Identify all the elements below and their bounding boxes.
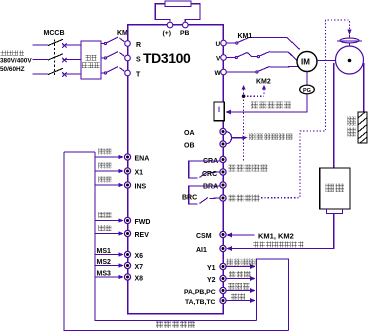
- svg-text:TA,TB,TC: TA,TB,TC: [185, 299, 216, 306]
- terminal R: [125, 41, 131, 47]
- dashed contactor control link: [244, 88, 264, 162]
- inverter block TD3100: [128, 25, 224, 314]
- terminal X7: [124, 262, 130, 268]
- label 称重信号模拟输入: [253, 242, 259, 248]
- terminal X6: [124, 251, 130, 257]
- svg-text:Y1: Y1: [207, 265, 216, 272]
- counterweight: [358, 112, 367, 143]
- elevator controller box: [257, 259, 289, 331]
- terminal CRC: [220, 169, 226, 175]
- wire three-phase input lines (black): [33, 45, 49, 74]
- terminal X8: [124, 274, 130, 280]
- label 检修: [99, 176, 105, 182]
- svg-text:PG: PG: [303, 88, 311, 94]
- car hitch: [327, 209, 343, 214]
- svg-text:V: V: [216, 56, 221, 63]
- svg-text:PB: PB: [180, 30, 190, 37]
- svg-text:CRA: CRA: [203, 158, 218, 165]
- contactor KM1+KM2 contacts V phase: [227, 52, 298, 61]
- wire pre-open output: [227, 290, 252, 292]
- terminal Y1: [220, 263, 226, 269]
- svg-text:REV: REV: [135, 232, 150, 239]
- label 轿厢: [326, 184, 335, 193]
- wire motor shaft to sheave: [317, 60, 343, 62]
- svg-text:PA,PB,PC: PA,PB,PC: [184, 289, 216, 296]
- contactor KM2 contact W phase: [227, 66, 299, 73]
- terminal V: [221, 55, 227, 61]
- terminal OB: [220, 141, 226, 147]
- svg-text:Y2: Y2: [207, 277, 216, 284]
- svg-text:T: T: [136, 72, 141, 79]
- terminal OA: [220, 128, 226, 134]
- terminal FWD: [124, 217, 130, 223]
- terminal PB: [183, 22, 189, 28]
- svg-text:BRA: BRA: [203, 184, 218, 191]
- svg-text:X8: X8: [135, 276, 144, 283]
- svg-text:R: R: [136, 42, 141, 49]
- label 复位: [99, 162, 105, 168]
- wire resistor leads: [155, 4, 200, 22]
- label 运行中: [229, 271, 236, 278]
- svg-text:IM: IM: [301, 58, 310, 67]
- rope to car: [333, 63, 335, 168]
- label 故障: [231, 294, 238, 301]
- label 抱闸控制: [229, 195, 236, 202]
- traction sheave: [336, 46, 364, 74]
- junction dot: [242, 94, 246, 98]
- breaker MCCB poles: [48, 39, 63, 75]
- svg-text:TD3100: TD3100: [143, 50, 191, 66]
- terminal S: [125, 55, 131, 61]
- label 三相输入 380V/400V 50/60HZ: [1, 51, 6, 56]
- terminal Y2: [220, 275, 226, 281]
- svg-text:ENA: ENA: [135, 156, 150, 163]
- svg-text:INS: INS: [135, 184, 147, 191]
- svg-text:X6: X6: [135, 253, 144, 260]
- svg-text:CSM: CSM: [196, 233, 212, 240]
- svg-text:X7: X7: [135, 264, 144, 271]
- svg-text:CRC: CRC: [202, 171, 217, 178]
- label 噪声滤波器: [85, 55, 90, 60]
- terminal PA,PB,PC: [220, 287, 226, 293]
- wire CSM from KM1,KM2: [231, 234, 255, 236]
- svg-text:OB: OB: [184, 143, 195, 150]
- svg-text:380V/400V: 380V/400V: [0, 57, 32, 64]
- contactor KM1 contact U phase: [227, 37, 300, 49]
- wire weighing signal from car to AI1: [231, 214, 334, 249]
- label 接触器控制: [229, 165, 236, 172]
- label 上行: [99, 212, 105, 218]
- label 编码器反馈: [251, 101, 258, 108]
- encoder PG: [306, 72, 308, 86]
- label 电梯停止: [227, 259, 234, 266]
- wire left common bus B: [95, 152, 257, 321]
- rope to counterweight: [363, 63, 365, 112]
- svg-text:MCCB: MCCB: [44, 30, 65, 37]
- svg-text:MS3: MS3: [97, 270, 112, 277]
- svg-text:W: W: [215, 70, 222, 77]
- label 使能: [99, 148, 105, 154]
- svg-text:KM: KM: [117, 30, 128, 37]
- relay contact CRA-CRC: [189, 161, 220, 178]
- terminal AI1: [220, 245, 226, 251]
- terminal X1: [124, 168, 130, 174]
- dashed brake control link: [261, 20, 350, 198]
- svg-text:KM1, KM2: KM1, KM2: [258, 232, 294, 241]
- pulse output bracket and arrow: [226, 132, 244, 145]
- contactor KM contacts R/S/T: [101, 37, 124, 74]
- svg-text:AI1: AI1: [196, 247, 207, 254]
- svg-text:OA: OA: [184, 130, 195, 137]
- terminal REV: [124, 230, 130, 236]
- svg-text:(+): (+): [163, 30, 172, 37]
- terminal U: [221, 40, 227, 46]
- svg-text:S: S: [136, 57, 141, 64]
- wire Y1 output: [227, 266, 252, 268]
- wire encoder feedback: [229, 94, 307, 112]
- terminal ENA: [124, 154, 130, 160]
- brake on sheave: [349, 35, 351, 47]
- svg-text:X1: X1: [135, 170, 144, 177]
- wire bus link: [64, 151, 95, 153]
- terminal INS: [124, 182, 130, 188]
- braking resistor: [165, 1, 191, 7]
- label 对重: [348, 117, 357, 126]
- terminal (+): [167, 22, 173, 28]
- terminal CRA: [220, 156, 226, 162]
- terminal BRC: [220, 195, 226, 201]
- svg-text:MS1: MS1: [97, 248, 112, 255]
- label 脉冲分频输出: [249, 134, 256, 141]
- motor IM: [297, 52, 317, 72]
- relay contact BRA-BRC: [189, 186, 220, 204]
- terminal W: [221, 69, 227, 75]
- wire input rows with arrows: [95, 157, 120, 277]
- svg-text:KM2: KM2: [256, 79, 271, 86]
- PG interface card I: [214, 102, 224, 121]
- terminal CSM: [220, 231, 226, 237]
- svg-text:BRC: BRC: [182, 195, 197, 202]
- label 下行: [99, 225, 105, 231]
- wire fault output: [227, 300, 252, 302]
- wire left common bus A: [64, 152, 289, 331]
- label 预开门: [228, 283, 235, 290]
- terminal T: [125, 70, 131, 76]
- elevator car: [320, 168, 350, 209]
- svg-text:U: U: [216, 41, 221, 48]
- svg-text:KM1: KM1: [238, 33, 253, 40]
- label 电梯控制器: [156, 321, 163, 328]
- noise filter box: [81, 41, 101, 79]
- terminal TA,TB,TC: [220, 297, 226, 303]
- wire Y2 output: [227, 278, 252, 280]
- wire MCCB to filter with x marks (purple): [62, 43, 81, 76]
- terminal BRA: [220, 182, 226, 188]
- svg-text:FWD: FWD: [135, 219, 151, 226]
- svg-text:50/60HZ: 50/60HZ: [0, 66, 25, 73]
- svg-text:MS2: MS2: [97, 259, 112, 266]
